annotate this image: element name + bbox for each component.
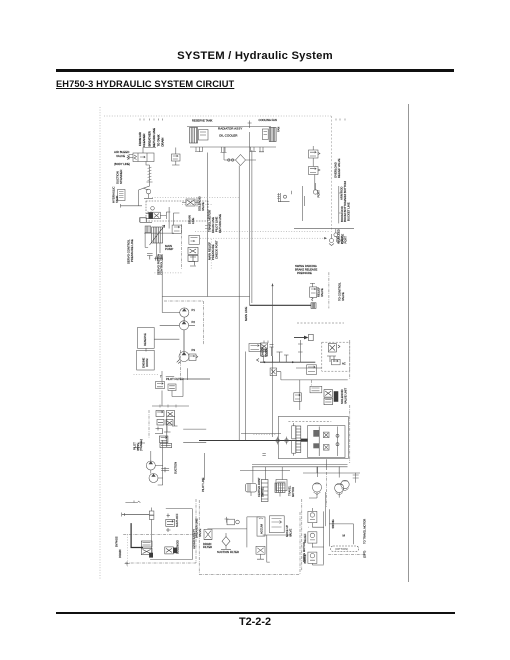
hose lower elbow	[139, 182, 150, 206]
shuttle valve center	[307, 365, 317, 375]
dotted bottom of regulator group	[154, 272, 181, 274]
left label column mid (travel lines)	[208, 210, 222, 233]
svg-text:SUCTION FILTER: SUCTION FILTER	[217, 550, 239, 554]
tank bottom wire	[121, 204, 143, 208]
vertical drop x299.8	[299, 380, 301, 410]
solenoid valve SV2 body	[186, 199, 195, 206]
dashdot vertical x196	[195, 499, 197, 563]
dotted vertical x127 bottom	[127, 534, 129, 566]
pilot box small valve	[332, 359, 341, 364]
frame dashed right upper border	[331, 116, 333, 232]
svg-text:(OPT): (OPT)	[363, 551, 367, 558]
travel motor M2	[335, 483, 344, 495]
pilot cluster wires	[162, 371, 183, 406]
oil cooler left port box	[199, 130, 209, 141]
center trunk vertical with arrow	[271, 284, 273, 438]
bottom-left labels	[115, 477, 206, 558]
pilot relief cluster right upper	[189, 235, 200, 244]
oil cooler bottom rail wire	[190, 146, 276, 148]
solenoid valve SV1 body	[153, 212, 161, 219]
pilot dotted line one	[195, 231, 330, 233]
cooler top riser	[248, 121, 252, 129]
main line bend	[162, 297, 249, 313]
lower-center cluster label	[340, 388, 347, 404]
strainer circle	[146, 189, 151, 194]
svg-text:SWING PARKING: SWING PARKING	[295, 264, 317, 268]
pump left hatch box	[145, 226, 151, 233]
oil cooler right hatched end	[269, 128, 276, 142]
motor top rail wire	[303, 466, 360, 473]
svg-text:PORT: PORT	[344, 236, 348, 244]
relief spring marks	[318, 153, 320, 172]
trunk vertical wire x207	[206, 153, 208, 297]
dashdot vertical x349 lower segment	[349, 405, 351, 463]
svg-text:(OPTION): (OPTION)	[335, 547, 348, 551]
svg-text:PILOT LINE: PILOT LINE	[201, 477, 205, 492]
svg-text:M: M	[343, 534, 346, 538]
right cluster marks	[166, 514, 171, 533]
overload relief valve B	[309, 167, 319, 175]
swing motor mark column	[318, 427, 320, 457]
cooler mid drop fitting	[221, 147, 227, 153]
cluster feed wires	[260, 361, 315, 363]
pilot relief beside G3	[189, 354, 198, 361]
svg-text:PORT: PORT	[340, 236, 344, 244]
pump lower marks	[147, 254, 153, 260]
swing relief stack valve 2	[308, 532, 317, 548]
svg-text:STRAINER: STRAINER	[119, 170, 123, 184]
pilot dotted line two with arrow	[200, 237, 327, 239]
swing motor right marks	[337, 427, 339, 457]
travel motor label left-center	[208, 240, 219, 260]
suction label	[174, 462, 178, 474]
svg-text:RESERVE: RESERVE	[143, 333, 147, 346]
bottom-left F mark	[125, 501, 140, 503]
overload relief valve A	[309, 150, 319, 158]
lower-center dark cluster	[324, 390, 338, 405]
air bleed valve label	[114, 150, 130, 166]
svg-text:VALVE: VALVE	[320, 288, 324, 297]
solenoid SV2 label	[198, 196, 205, 211]
inner solid rail vertical	[191, 509, 193, 560]
solenoid block dashed enclosure	[146, 201, 208, 221]
travel fitting hatched B	[275, 483, 285, 493]
delivery line down	[161, 273, 163, 313]
check line vertical	[302, 186, 304, 221]
F port mark	[225, 517, 229, 523]
center riser x247	[247, 517, 261, 548]
oil cooler label	[192, 118, 281, 138]
main line label	[244, 307, 248, 321]
pilot cluster valve B	[168, 384, 176, 391]
pilot box internals dark	[327, 344, 340, 363]
swing motor check square B	[323, 445, 329, 451]
stack labels	[303, 519, 335, 563]
solenoid cluster wires	[146, 212, 170, 219]
bottom-left stack box upper	[141, 541, 152, 547]
cluster extra marks	[257, 345, 289, 363]
svg-text:VALVE: VALVE	[264, 348, 268, 357]
svg-text:RETURN LINE: RETURN LINE	[152, 128, 156, 147]
dashed pilot box right	[322, 342, 350, 371]
svg-text:DRAIN: DRAIN	[118, 550, 122, 558]
option dashdot left border	[198, 500, 200, 575]
cooler right drop fitting	[250, 147, 257, 152]
header title	[0, 50, 510, 62]
pilot filter cluster valve A	[156, 382, 165, 389]
swing relief stack valve 1	[308, 508, 317, 527]
oil cooler top rail wire	[187, 126, 271, 128]
svg-text:LINE: LINE	[191, 218, 195, 224]
solenoid pilot circle	[151, 207, 155, 211]
pilot line wire y406	[152, 405, 189, 407]
box link wire	[146, 339, 179, 351]
dashdot vertical x311 lower	[311, 380, 313, 386]
rail risers to motors	[318, 466, 340, 477]
vertical x245 mid	[245, 352, 247, 441]
drain label small	[188, 215, 196, 224]
svg-text:P1: P1	[192, 308, 196, 312]
cluster small marks	[189, 261, 196, 266]
solenoid SV2 wires	[182, 198, 199, 207]
pump label	[165, 244, 173, 251]
swing motor inner box	[308, 426, 345, 458]
center relief marks above	[310, 283, 315, 287]
dash top right tickmarks	[336, 119, 345, 121]
svg-text:RADIATOR ASSY: RADIATOR ASSY	[218, 127, 242, 131]
main pump swash rect P1	[150, 225, 165, 245]
pilot wire ticks	[160, 405, 176, 408]
pilot gear pump PA	[146, 461, 155, 470]
long feed wire into swing block	[199, 440, 301, 442]
accumulator label	[260, 523, 264, 534]
bottom diamond filter	[221, 533, 231, 549]
small gauge component	[227, 519, 239, 525]
svg-text:CHECK PORT: CHECK PORT	[214, 240, 218, 259]
corner wire right	[329, 524, 353, 544]
test gauge circle	[313, 183, 317, 194]
bottom diamond label	[217, 550, 239, 554]
svg-text:PILOT FILTER: PILOT FILTER	[166, 377, 184, 381]
wire y379 left	[183, 378, 210, 380]
svg-text:SHUT-OFF: SHUT-OFF	[175, 513, 179, 527]
rotated label cluster top-left	[138, 128, 165, 147]
radiator sub box label	[143, 333, 147, 346]
suction end block	[311, 303, 316, 309]
inner rail top wire	[166, 508, 193, 510]
parallel wire y433.5	[241, 433, 281, 435]
bottom-left dark elbow wire	[131, 523, 143, 547]
trunk double vertical wire x249-252	[250, 132, 252, 305]
svg-text:P3: P3	[192, 348, 196, 352]
to-engine text marks	[160, 375, 162, 379]
dashdot vertical x302 bottom	[301, 499, 303, 570]
dashdot vertical x349 upper	[349, 340, 351, 379]
gear pump circle G1	[180, 308, 189, 317]
svg-text:ARM BOTTOM: ARM BOTTOM	[343, 181, 347, 201]
wire right y379	[183, 378, 210, 380]
regulator valve R1	[172, 225, 181, 233]
test gauge label	[316, 190, 320, 198]
rotated labels right cluster	[175, 513, 202, 554]
top-left tick marks	[140, 119, 163, 121]
svg-text:MOTOR: MOTOR	[291, 487, 295, 497]
gauge port label	[341, 234, 348, 244]
drain filter wire	[204, 529, 247, 540]
svg-text:BRAKE RELEASE: BRAKE RELEASE	[295, 267, 317, 271]
stack left rail	[309, 511, 324, 565]
pilot cluster label	[166, 377, 184, 381]
pilot port label	[337, 229, 344, 244]
svg-text:TANK: TANK	[115, 196, 119, 203]
gauge port circle B	[336, 237, 340, 243]
comb manifold	[154, 257, 162, 261]
hose to tank hatched	[146, 162, 153, 183]
pump group marks above	[135, 441, 146, 451]
wire y371.7	[277, 372, 281, 380]
pilot dotted line lower	[182, 204, 212, 206]
dashed line above swing block	[297, 322, 344, 324]
svg-text:VALVE: VALVE	[116, 154, 125, 158]
travel fitting hatched A	[246, 484, 257, 493]
mid wire y368	[296, 367, 322, 369]
center relief valve	[310, 287, 317, 301]
cooler drop fitting right-center	[259, 147, 264, 152]
svg-text:BREATHER: BREATHER	[148, 131, 152, 146]
valve above feed wire	[292, 423, 296, 456]
swing motor dashed top	[288, 420, 331, 422]
make up valve box	[270, 516, 285, 533]
pilot valve dense cluster	[156, 411, 175, 426]
arrow valve label	[261, 347, 268, 357]
small marks below box	[262, 454, 265, 456]
center relief label	[317, 287, 324, 297]
bottom check valve	[256, 546, 265, 554]
svg-text:T: T	[160, 375, 162, 379]
valve V1 top pipe	[129, 148, 156, 160]
port drop wire	[151, 519, 153, 557]
option rounded box	[331, 546, 359, 551]
bottom right motor circle	[341, 480, 349, 491]
pump labels right	[192, 308, 196, 352]
double rail upper	[252, 463, 348, 465]
swing relief stack valve 3	[308, 552, 317, 565]
svg-text:VALVE: VALVE	[198, 529, 202, 537]
regulator dashdot vertical	[180, 224, 182, 269]
dashdot horizontal y534	[123, 533, 196, 535]
regulator upper link wire	[140, 218, 152, 223]
dashdot vertical x149 lower	[148, 410, 150, 438]
servo long labels	[156, 254, 163, 275]
drain filter label	[203, 542, 212, 549]
right label column texts	[340, 181, 351, 222]
right rotated labels bottom	[363, 519, 367, 558]
section heading	[56, 79, 234, 89]
gauge port circle A	[334, 229, 338, 237]
right cluster solenoid	[165, 547, 177, 554]
port fitting stack	[149, 508, 154, 520]
cluster arrowheads on feed	[263, 361, 295, 363]
pilot relief cluster right lower	[188, 247, 198, 261]
swing motor hatched bar	[296, 426, 301, 453]
svg-text:(BODY LINE): (BODY LINE)	[114, 162, 130, 166]
travel motor M1	[312, 483, 321, 495]
svg-text:OIL COOLER: OIL COOLER	[219, 134, 238, 138]
bottom-left stack box lower	[141, 548, 152, 554]
dashdot pilot line mid	[164, 300, 204, 302]
svg-text:ENGINE: ENGINE	[142, 357, 146, 368]
small box left of shuttle	[270, 368, 277, 376]
solid line right mid	[294, 228, 354, 230]
option left label	[195, 518, 199, 538]
svg-text:MAIN LINE: MAIN LINE	[244, 307, 248, 321]
svg-text:P2: P2	[192, 320, 196, 324]
wire from motors down	[309, 492, 339, 498]
double rail lower	[252, 466, 348, 468]
dotted vertical right of regulator	[210, 239, 212, 269]
footer rule	[56, 612, 455, 614]
line filter diamond	[224, 155, 256, 166]
frame solid right border	[408, 104, 410, 582]
bottom check valve stub	[257, 554, 264, 559]
filter port circles	[228, 159, 230, 161]
dotted under engine box	[134, 373, 160, 375]
frame dotted top border	[104, 115, 332, 117]
solenoid drop wire	[168, 207, 170, 229]
dotted stub left	[253, 433, 276, 435]
travel fittings labels	[257, 477, 295, 497]
servo control label rotated	[127, 239, 134, 264]
svg-text:PRESSURE LINE: PRESSURE LINE	[130, 239, 134, 262]
svg-text:BYPASS: BYPASS	[115, 536, 119, 547]
relief valves riser wire	[313, 146, 315, 190]
svg-text:TO TRAVEL MOTOR: TO TRAVEL MOTOR	[363, 519, 367, 544]
pump G2 through wire	[160, 324, 195, 326]
swing bottom-right stack riser	[325, 492, 327, 526]
drain filter box	[204, 529, 212, 539]
M mark	[343, 534, 346, 538]
main suction dark L wire	[250, 304, 311, 306]
strainer link wires	[143, 188, 153, 198]
oil cooler right port box	[262, 129, 268, 140]
svg-text:AC: AC	[342, 362, 346, 366]
wires y429 y441 right pair	[183, 429, 206, 442]
swing motor check square A	[323, 432, 329, 438]
pump left wire	[145, 233, 148, 248]
oil cooler left hatched end	[190, 128, 198, 144]
svg-text:PRESSURE: PRESSURE	[297, 271, 312, 275]
svg-text:PUMP: PUMP	[165, 247, 173, 251]
inner rail bottom wire	[150, 559, 192, 561]
engine box label	[142, 357, 150, 368]
rail left risers	[253, 467, 282, 483]
svg-text:VALVE: VALVE	[341, 292, 345, 301]
dashdot horizontal y563	[125, 562, 196, 564]
bottom swing label column	[302, 542, 306, 562]
regulator R1 riser	[173, 213, 179, 225]
suction strainer label	[116, 170, 124, 184]
svg-text:RELIEF VALVE: RELIEF VALVE	[337, 158, 341, 178]
svg-text:CONTROL LINE: CONTROL LINE	[160, 254, 164, 275]
left cluster box2	[276, 480, 287, 491]
pump down wires	[156, 243, 160, 258]
svg-text:VALVE: VALVE	[201, 202, 205, 211]
diamond riser	[223, 147, 225, 160]
right rotated label far	[338, 282, 345, 301]
svg-text:PORT: PORT	[316, 190, 320, 198]
swing box drop wire	[326, 459, 328, 470]
center small text cluster	[295, 264, 317, 275]
option dashdot bottom border	[199, 574, 300, 576]
long wire y379.9	[281, 379, 348, 381]
pump group vertical wire	[151, 440, 163, 485]
center bank dense cluster upper-left	[261, 343, 268, 356]
cooler left drop fittings	[195, 147, 203, 152]
svg-text:ROOM: ROOM	[145, 358, 149, 367]
left cluster under rail dark box	[261, 480, 268, 502]
frame dotted left border	[99, 107, 101, 580]
svg-text:FILTER: FILTER	[203, 545, 212, 549]
travel fittings top wires	[240, 471, 290, 497]
swing feed arrow component	[294, 334, 313, 340]
svg-text:(TRAVEL): (TRAVEL)	[139, 439, 143, 451]
right small cluster under rail	[353, 473, 359, 483]
bottom-left extra marks	[125, 562, 130, 566]
option dashdot right border	[299, 512, 301, 575]
svg-text:VALVE: VALVE	[288, 529, 292, 537]
lower center valve	[294, 393, 302, 402]
pilot cluster lower valves	[159, 436, 171, 448]
lower center components small box	[310, 386, 322, 393]
hydraulic tank label	[112, 187, 119, 203]
engine box	[137, 350, 155, 370]
cooler inlet relief valve	[172, 148, 181, 166]
air bleed valve V1	[127, 153, 154, 162]
right bracket wire	[339, 186, 341, 223]
solenoid valve SV1 coil	[149, 212, 153, 219]
svg-text:SUCTION: SUCTION	[174, 462, 178, 474]
dark box on port drop	[149, 553, 153, 558]
pump P1 feed wire	[144, 232, 174, 234]
hose hatch ticks	[148, 167, 152, 180]
svg-text:RETURN LINE: RETURN LINE	[218, 214, 222, 233]
dashdot vertical x329	[328, 272, 330, 308]
pump group connecting wires	[155, 466, 162, 479]
svg-text:BUCKET LINE: BUCKET LINE	[346, 202, 350, 221]
hydraulic tank symbol	[118, 190, 126, 201]
pilot port symbol	[329, 234, 334, 246]
port wire left tick	[122, 513, 125, 517]
vertical line x204 bottom	[203, 453, 205, 480]
svg-text:DRAIN: DRAIN	[161, 138, 165, 147]
accumulator box	[257, 517, 265, 536]
gear pump circle G2	[179, 321, 188, 330]
make up wire	[263, 535, 292, 562]
header rule	[56, 69, 454, 72]
pilot cluster mid marks	[155, 416, 178, 447]
right cluster valve box	[166, 519, 175, 526]
svg-text:VALVE UNIT: VALVE UNIT	[343, 388, 347, 404]
dashdot vertical x180 upper	[180, 350, 182, 380]
svg-text:COOLING FAN: COOLING FAN	[259, 118, 277, 122]
pump drop wire	[187, 368, 189, 380]
relief label column	[334, 158, 341, 178]
regulator top marks	[145, 213, 148, 216]
wire into pump block left	[140, 218, 147, 223]
svg-text:BREAKER LINE: BREAKER LINE	[195, 518, 199, 538]
pump drop horizontal	[166, 376, 174, 378]
bottom-left port wire	[122, 514, 149, 516]
